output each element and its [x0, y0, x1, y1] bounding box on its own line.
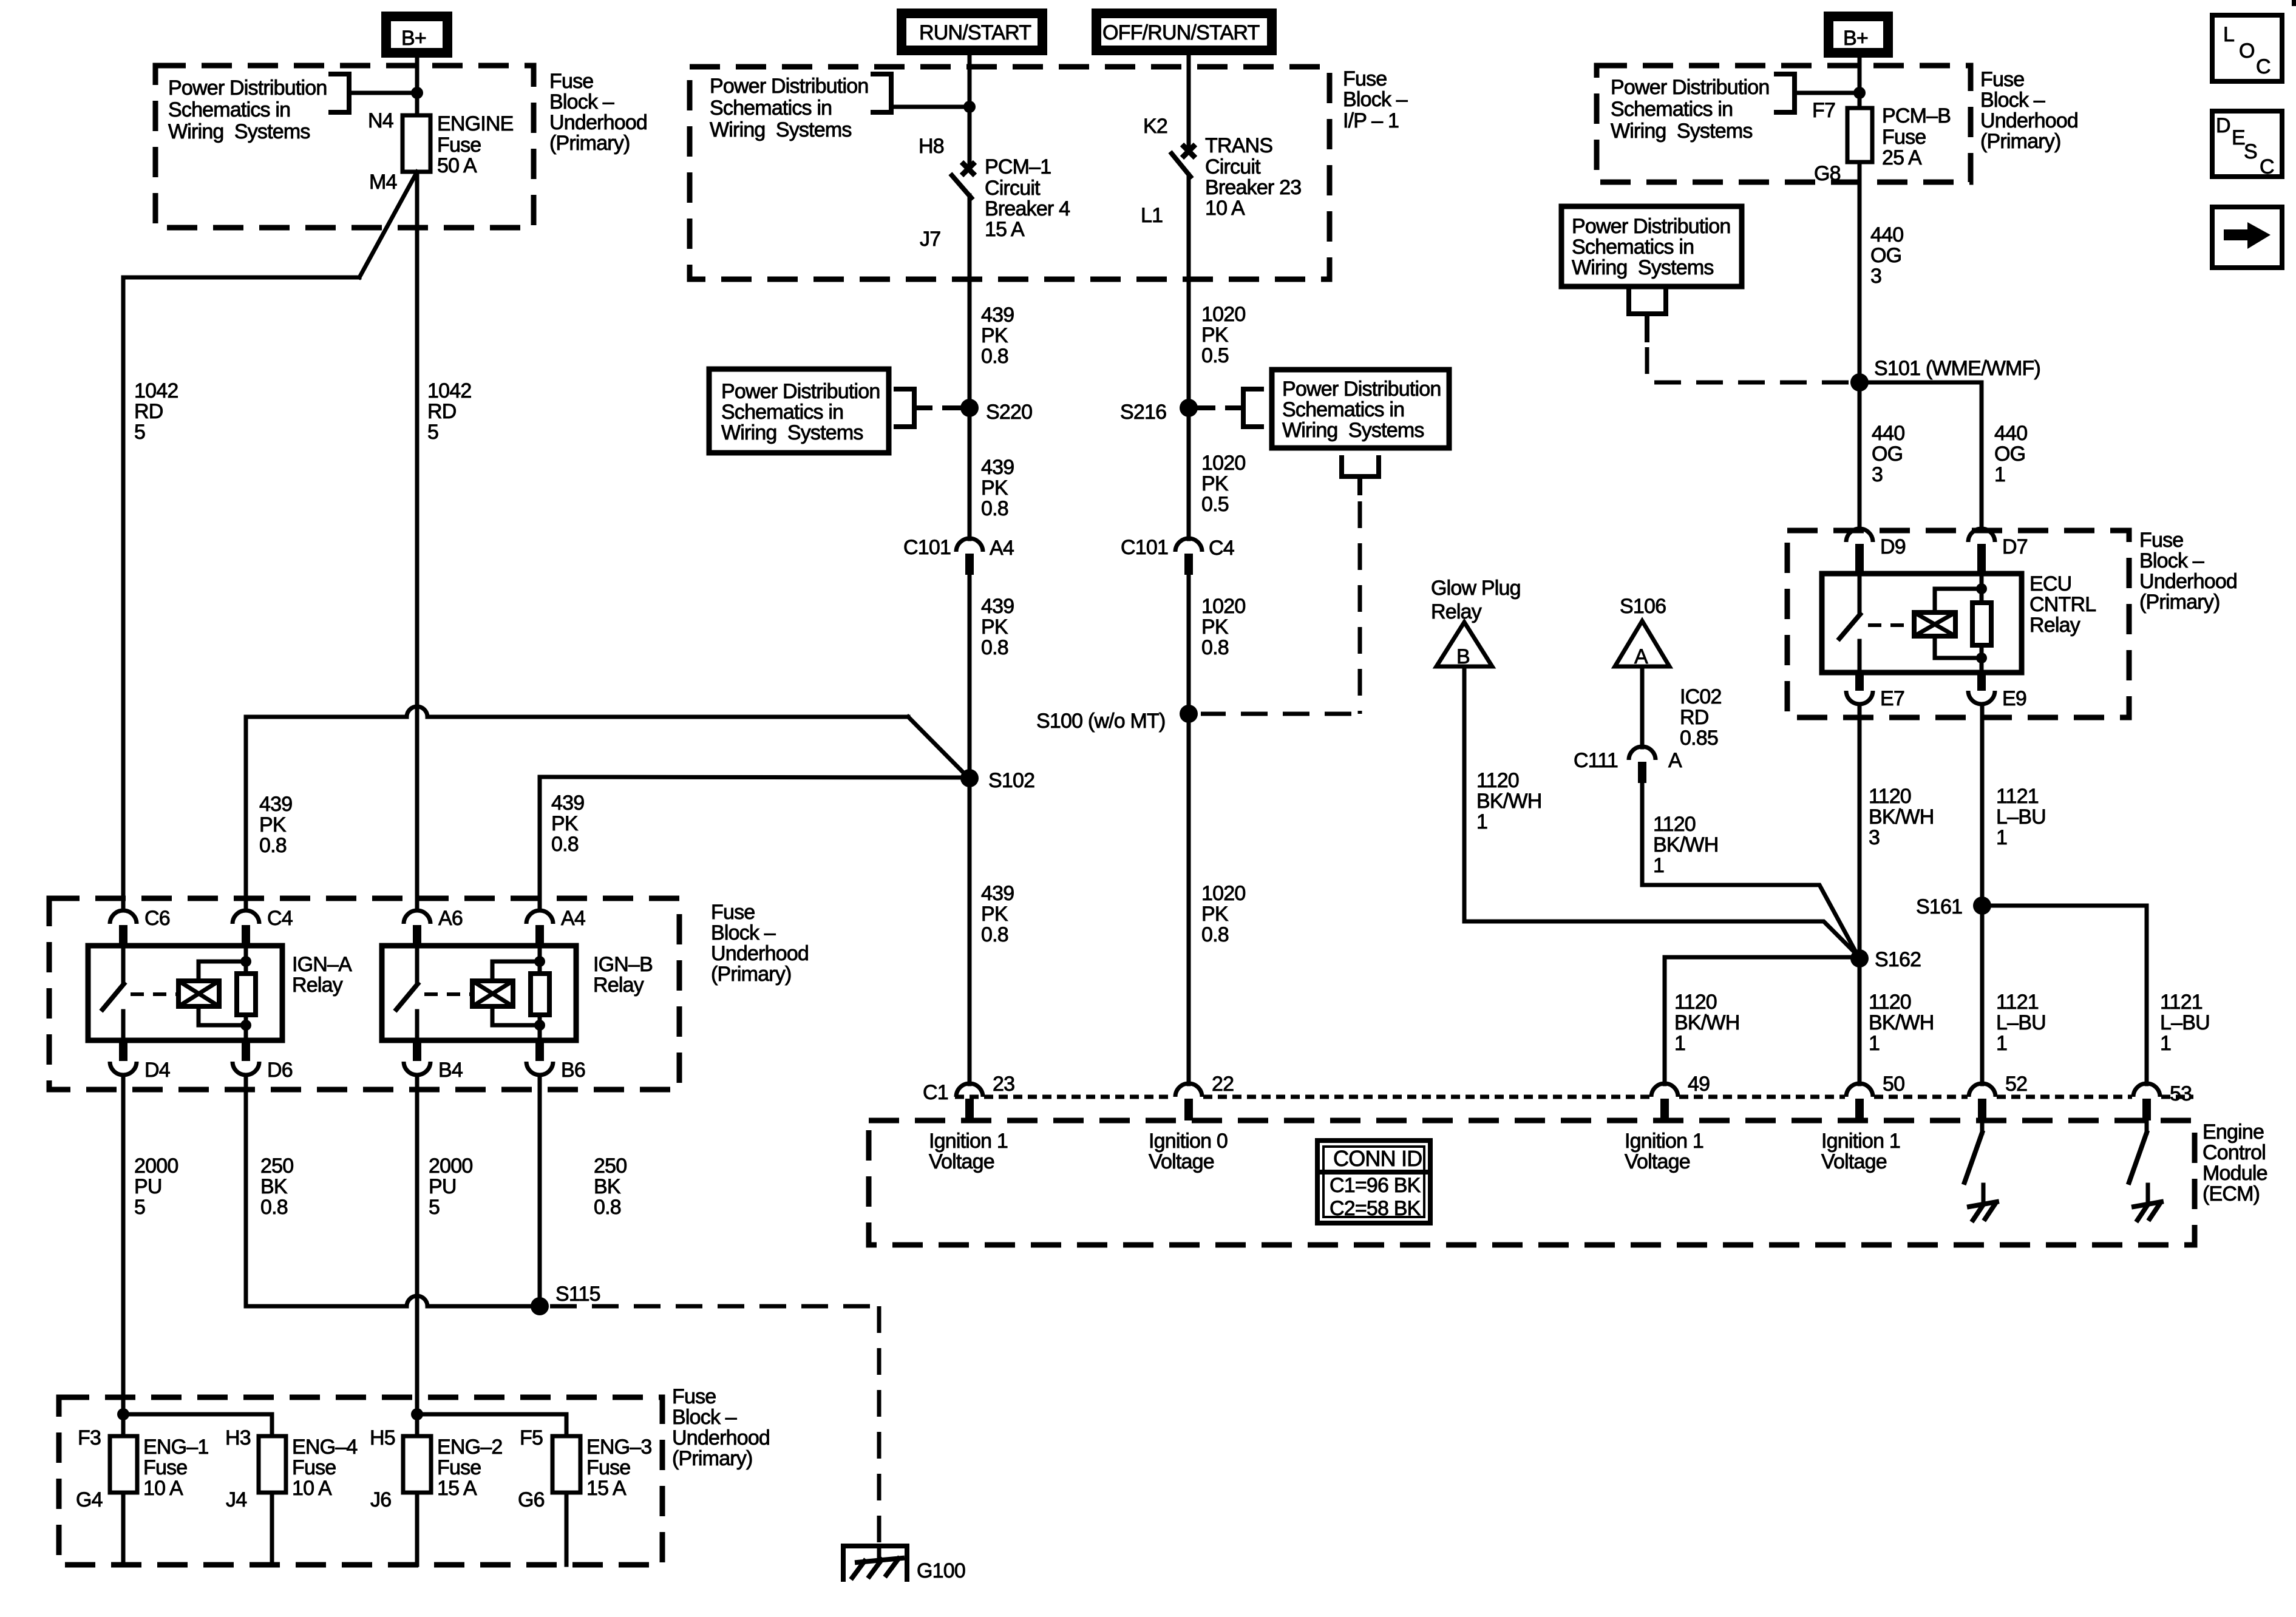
svg-text:(Primary): (Primary) — [549, 132, 630, 155]
svg-text:Fuse: Fuse — [143, 1456, 187, 1479]
svg-text:Wiring Systems: Wiring Systems — [710, 118, 852, 141]
svg-text:440: 440 — [1872, 422, 1904, 445]
svg-text:D7: D7 — [2002, 535, 2028, 558]
svg-text:Underhood: Underhood — [549, 111, 647, 134]
label ENGINE Fuse 50 A — [437, 112, 514, 177]
node junction on RUN/START wire — [963, 101, 976, 113]
svg-text:Wiring Systems: Wiring Systems — [1282, 419, 1424, 442]
svg-text:Glow Plug: Glow Plug — [1431, 577, 1521, 600]
connector E9 — [1968, 673, 2026, 710]
svg-text:5: 5 — [134, 1196, 145, 1219]
svg-text:15 A: 15 A — [985, 218, 1025, 241]
wire far-left column down — [121, 277, 126, 910]
connector D6 — [233, 1040, 293, 1082]
svg-text:PU: PU — [134, 1175, 162, 1198]
label 439 PK 0.8 (A4 drop) — [551, 792, 584, 856]
wire E9 down through S161 to ECM pin 52 — [1980, 704, 1985, 1084]
svg-text:Schematics in: Schematics in — [710, 97, 832, 120]
svg-text:C4: C4 — [1209, 537, 1234, 560]
svg-text:Fuse: Fuse — [549, 70, 593, 93]
svg-text:RD: RD — [427, 400, 457, 423]
svg-text:1: 1 — [1869, 1032, 1880, 1055]
svg-text:Fuse: Fuse — [1882, 126, 1926, 149]
svg-text:1120: 1120 — [1674, 991, 1717, 1014]
svg-text:1: 1 — [1996, 1032, 2007, 1055]
svg-text:C111: C111 — [1574, 749, 1618, 772]
svg-text:S: S — [2244, 140, 2257, 163]
svg-text:F5: F5 — [520, 1426, 543, 1449]
wire PCM-B fuse down to D9 — [1858, 162, 1862, 529]
label 440 OG 3 (below S101) — [1872, 422, 1904, 486]
wire D4 down to ENG-1 fuse — [121, 1075, 126, 1436]
wire C111 to S162 — [1642, 783, 1858, 955]
svg-text:0.8: 0.8 — [981, 345, 1008, 368]
wire glow plug relay to S162 — [1464, 666, 1859, 957]
svg-text:C: C — [2260, 155, 2274, 178]
svg-text:J7: J7 — [920, 228, 940, 251]
svg-text:Relay: Relay — [2029, 614, 2080, 637]
svg-text:1: 1 — [1476, 810, 1487, 833]
svg-text:S100 (w/o MT): S100 (w/o MT) — [1036, 710, 1166, 733]
svg-text:ENG–3: ENG–3 — [586, 1436, 652, 1459]
svg-text:C4: C4 — [267, 907, 293, 930]
svg-text:J4: J4 — [226, 1488, 246, 1511]
svg-text:(Primary): (Primary) — [672, 1447, 753, 1470]
svg-text:23: 23 — [993, 1073, 1014, 1096]
svg-text:H3: H3 — [225, 1426, 251, 1449]
svg-text:C101: C101 — [903, 536, 951, 559]
svg-text:Breaker 4: Breaker 4 — [985, 197, 1070, 220]
svg-text:Power Distribution: Power Distribution — [1282, 378, 1441, 401]
svg-text:Voltage: Voltage — [1149, 1150, 1214, 1173]
circuit breaker TRANS contact X — [1182, 144, 1195, 158]
connector C101 A4 — [903, 536, 1014, 575]
svg-text:ENGINE: ENGINE — [437, 112, 514, 135]
Power Distribution Schematics callout text (top middle) — [710, 75, 869, 141]
bracket below S101 callout box — [1629, 290, 1666, 340]
svg-text:52: 52 — [2005, 1073, 2027, 1096]
svg-text:1: 1 — [1994, 463, 2005, 486]
svg-text:25 A: 25 A — [1882, 146, 1922, 169]
svg-text:Fuse: Fuse — [586, 1456, 630, 1479]
svg-text:Fuse: Fuse — [437, 1456, 481, 1479]
svg-text:S161: S161 — [1916, 895, 1962, 918]
node at ENG-1 feed — [117, 1408, 129, 1420]
label Ignition 1 Voltage (pin 49) — [1625, 1130, 1703, 1173]
svg-text:Relay: Relay — [292, 974, 343, 997]
svg-text:439: 439 — [981, 303, 1014, 327]
fuse block dashed box around ECU CNTRL relay — [1787, 531, 2129, 717]
svg-text:Ignition 1: Ignition 1 — [1625, 1130, 1703, 1153]
svg-text:1: 1 — [1996, 826, 2007, 849]
fuse PCM-B 25A — [1847, 108, 1872, 162]
bus wire ENG-2 to ENG-3 — [417, 1414, 566, 1436]
svg-text:50: 50 — [1883, 1073, 1904, 1096]
connector C1 pin 23 — [923, 1073, 1014, 1120]
svg-text:C2=58 BK: C2=58 BK — [1330, 1197, 1421, 1220]
svg-text:M4: M4 — [369, 171, 397, 194]
dashed wire from S216 callout down to S100 — [1358, 501, 1362, 714]
bus wire ENG-1 to ENG-4 — [123, 1414, 272, 1436]
svg-text:1020: 1020 — [1201, 595, 1245, 618]
svg-text:(Primary): (Primary) — [2139, 591, 2220, 614]
svg-text:B4: B4 — [438, 1059, 463, 1082]
svg-text:1020: 1020 — [1201, 452, 1245, 475]
ground G100 — [843, 1546, 965, 1582]
svg-text:Fuse: Fuse — [711, 901, 755, 924]
connector C6 — [110, 907, 170, 946]
svg-text:PK: PK — [259, 813, 287, 836]
svg-text:Power Distribution: Power Distribution — [1611, 76, 1770, 99]
fuse ENG-4 10A — [225, 1426, 358, 1565]
svg-text:Power Distribution: Power Distribution — [721, 380, 880, 403]
svg-text:Underhood: Underhood — [1980, 109, 2078, 132]
svg-text:1020: 1020 — [1201, 882, 1245, 905]
svg-text:Power Distribution: Power Distribution — [168, 76, 327, 100]
svg-text:PK: PK — [981, 615, 1008, 639]
wire branch from S102 to IGN-A C4 (upper horizontal with hop) — [246, 707, 966, 910]
svg-text:Fuse: Fuse — [672, 1385, 716, 1408]
OFF/RUN/START terminal box — [1096, 13, 1272, 50]
svg-text:A4: A4 — [561, 907, 585, 930]
wire branch S161 to ECM pin 53 — [1982, 906, 2147, 1084]
svg-text:A6: A6 — [438, 907, 463, 930]
svg-text:F7: F7 — [1812, 99, 1835, 122]
svg-text:OFF/RUN/START: OFF/RUN/START — [1102, 21, 1259, 44]
connector B4 — [404, 1040, 463, 1082]
svg-text:C1: C1 — [923, 1081, 948, 1104]
svg-text:BK: BK — [594, 1175, 621, 1198]
svg-text:D4: D4 — [144, 1059, 170, 1082]
svg-text:PCM–B: PCM–B — [1882, 104, 1951, 127]
svg-text:E7: E7 — [1880, 687, 1904, 710]
label 1042 RD 5 (right) — [427, 379, 471, 444]
svg-text:0.8: 0.8 — [551, 833, 579, 856]
svg-text:Power Distribution: Power Distribution — [1572, 215, 1731, 238]
connector pin 53 — [2133, 1082, 2192, 1120]
label Fuse Block - I/P - 1 — [1343, 67, 1408, 132]
bracket S220 callout — [896, 389, 959, 427]
svg-text:B+: B+ — [401, 27, 426, 50]
svg-text:Block –: Block – — [1980, 89, 2045, 112]
wire branch S162 to ECM pin 49 — [1665, 957, 1860, 1084]
svg-text:Wiring Systems: Wiring Systems — [168, 120, 310, 143]
svg-text:1: 1 — [1674, 1032, 1685, 1055]
svg-text:G6: G6 — [518, 1488, 545, 1511]
DESC legend box — [2212, 111, 2282, 178]
svg-text:L–BU: L–BU — [1996, 1011, 2046, 1034]
svg-text:IGN–B: IGN–B — [593, 953, 653, 976]
label 1121 L-BU 1 (pin 53) — [2160, 991, 2210, 1055]
svg-text:Ignition 1: Ignition 1 — [1821, 1130, 1900, 1153]
svg-text:D6: D6 — [267, 1059, 293, 1082]
label 439 PK 0.8 (C4 drop) — [259, 793, 292, 857]
wire diagonal from fuse M4 to left branch — [359, 172, 417, 277]
node junction at fuse feed — [411, 87, 423, 99]
label 1020 PK 0.5 (above S216) — [1201, 303, 1245, 367]
svg-text:S115: S115 — [555, 1283, 600, 1306]
svg-text:PK: PK — [981, 324, 1008, 347]
dashed wire from S101 callout to S101 — [1647, 347, 1849, 382]
svg-text:Relay: Relay — [593, 974, 644, 997]
svg-text:H8: H8 — [919, 135, 944, 158]
svg-text:N4: N4 — [368, 109, 393, 132]
svg-text:5: 5 — [429, 1196, 440, 1219]
svg-text:PK: PK — [1201, 615, 1229, 639]
svg-text:1042: 1042 — [427, 379, 471, 402]
wire horizontal to far-left column — [123, 276, 359, 280]
wire OFF/RUN/START down to breaker — [1187, 55, 1191, 146]
Power Distribution box (S101 callout) — [1561, 206, 1742, 286]
connector D4 — [110, 1040, 170, 1082]
label 1020 PK 0.8 (below C101) — [1201, 595, 1245, 659]
svg-text:3: 3 — [1870, 265, 1881, 288]
svg-text:0.8: 0.8 — [981, 923, 1008, 946]
svg-text:0.8: 0.8 — [1201, 923, 1229, 946]
relay IGN-A — [88, 946, 282, 1040]
circuit breaker TRANS blade — [1172, 154, 1190, 177]
svg-text:S220: S220 — [986, 401, 1032, 424]
label 250 BK 0.8 (B6) — [594, 1154, 627, 1219]
B+ terminal box (left) — [386, 16, 447, 53]
svg-text:1121: 1121 — [1996, 991, 2039, 1014]
connector C111 A — [1574, 747, 1682, 783]
svg-text:Ignition 0: Ignition 0 — [1149, 1130, 1228, 1153]
svg-text:RUN/START: RUN/START — [919, 21, 1031, 44]
svg-text:50 A: 50 A — [437, 154, 477, 177]
ECM dashed box — [869, 1120, 2195, 1245]
wire B+ to ENGINE fuse — [415, 58, 419, 115]
label Fuse Block - Underhood (Primary) right of relay box — [711, 901, 809, 986]
svg-text:15 A: 15 A — [586, 1477, 627, 1500]
svg-text:G8: G8 — [1814, 162, 1841, 185]
svg-text:Underhood: Underhood — [2139, 570, 2237, 593]
connector A6 — [404, 907, 463, 946]
svg-text:B+: B+ — [1843, 27, 1868, 50]
svg-text:S101 (WME/WMF): S101 (WME/WMF) — [1874, 357, 2040, 380]
svg-text:PK: PK — [981, 903, 1008, 926]
label 2000 PU 5 (B4) — [429, 1154, 472, 1219]
svg-text:439: 439 — [981, 595, 1014, 618]
page corner tick — [2292, 0, 2296, 6]
B+ terminal box (right) — [1829, 16, 1888, 53]
svg-text:10 A: 10 A — [292, 1477, 332, 1500]
label TRANS Circuit Breaker 23 10 A — [1205, 134, 1301, 220]
fuse ENG-3 15A — [518, 1426, 652, 1565]
wire B6 down to S115 — [538, 1075, 542, 1306]
splice S162 — [1850, 949, 1869, 968]
svg-text:S102: S102 — [988, 769, 1034, 792]
svg-text:K2: K2 — [1143, 115, 1167, 138]
svg-text:S216: S216 — [1120, 401, 1166, 424]
svg-text:CONN ID: CONN ID — [1333, 1146, 1422, 1171]
label 439 PK 0.8 (above ECM pin 23) — [981, 882, 1014, 946]
svg-text:10 A: 10 A — [143, 1477, 183, 1500]
svg-text:1120: 1120 — [1476, 769, 1519, 792]
svg-text:1: 1 — [2160, 1032, 2171, 1055]
splice S161 — [1973, 897, 1991, 915]
wire branch S101 to D7 — [1860, 382, 1982, 529]
svg-text:1042: 1042 — [134, 379, 178, 402]
svg-text:Schematics in: Schematics in — [1572, 236, 1694, 259]
svg-text:440: 440 — [1870, 223, 1903, 246]
svg-text:53: 53 — [2170, 1082, 2192, 1105]
ECM connector dotted line — [955, 1095, 2193, 1099]
svg-text:0.8: 0.8 — [594, 1196, 621, 1219]
svg-text:E: E — [2232, 126, 2245, 149]
svg-text:0.8: 0.8 — [981, 497, 1008, 520]
svg-text:RD: RD — [1680, 706, 1709, 729]
svg-text:BK/WH: BK/WH — [1653, 833, 1718, 856]
svg-text:Schematics in: Schematics in — [721, 401, 843, 424]
svg-text:3: 3 — [1872, 463, 1883, 486]
bracket S216 callout — [1198, 389, 1262, 427]
svg-text:PK: PK — [1201, 903, 1229, 926]
wire S106 to C111 — [1640, 666, 1645, 747]
fuse ENG-2 15A — [370, 1426, 503, 1565]
label 1120 BK/WH 3 — [1869, 785, 1934, 849]
splice S100 — [1180, 705, 1198, 723]
label Fuse Block - Underhood (Primary) top-left — [549, 70, 647, 155]
svg-text:(Primary): (Primary) — [711, 963, 792, 986]
svg-text:ECU: ECU — [2029, 572, 2071, 595]
svg-text:5: 5 — [427, 421, 438, 444]
label IGN-B Relay — [593, 953, 653, 997]
svg-text:0.8: 0.8 — [981, 636, 1008, 659]
svg-text:PK: PK — [981, 476, 1008, 500]
circuit breaker PCM-1 blade — [952, 175, 971, 198]
svg-text:OG: OG — [1870, 244, 1901, 267]
svg-text:Block –: Block – — [672, 1406, 737, 1429]
svg-text:Block –: Block – — [549, 90, 614, 114]
label PCM-B Fuse 25 A — [1882, 104, 1951, 169]
svg-text:Relay: Relay — [1431, 600, 1482, 623]
svg-text:439: 439 — [981, 882, 1014, 905]
connector C4 — [233, 907, 293, 946]
svg-text:5: 5 — [134, 421, 145, 444]
triangle connector B (glow plug relay) — [1436, 622, 1492, 668]
label 1042 RD 5 (left) — [134, 379, 178, 444]
svg-text:F3: F3 — [78, 1426, 101, 1449]
svg-text:1: 1 — [1653, 854, 1664, 877]
svg-text:PCM–1: PCM–1 — [985, 155, 1051, 178]
bracket for top-right callout — [1776, 74, 1860, 112]
connector pin 52 — [1969, 1073, 2027, 1120]
label 1120 BK/WH 1 (pin 50) — [1869, 991, 1934, 1055]
wire E7 down through S162 to ECM pin 50 — [1858, 704, 1862, 1084]
wire D6 run to S115 with hop — [246, 1296, 540, 1306]
svg-text:49: 49 — [1688, 1073, 1710, 1096]
connector A4 — [526, 907, 585, 946]
svg-text:Module: Module — [2203, 1162, 2267, 1185]
svg-text:Fuse: Fuse — [2139, 529, 2183, 552]
label IGN-A Relay — [292, 953, 352, 997]
svg-text:439: 439 — [981, 456, 1014, 479]
connector E7 — [1846, 673, 1904, 710]
svg-text:D: D — [2216, 114, 2230, 137]
svg-text:Schematics in: Schematics in — [1611, 98, 1733, 121]
relay ECU CNTRL — [1822, 574, 2022, 673]
splice S102 — [960, 769, 979, 787]
svg-text:C: C — [2256, 55, 2271, 78]
wire B+ right to PCM-B fuse — [1858, 58, 1862, 108]
svg-text:OG: OG — [1994, 442, 2025, 466]
splice S216 — [1180, 399, 1198, 417]
svg-text:2000: 2000 — [134, 1154, 178, 1178]
svg-text:G4: G4 — [76, 1488, 103, 1511]
svg-text:Schematics in: Schematics in — [1282, 398, 1404, 421]
wire fuse output down left column — [415, 172, 419, 910]
svg-text:Fuse: Fuse — [292, 1456, 336, 1479]
svg-text:440: 440 — [1994, 422, 2027, 445]
svg-text:J6: J6 — [370, 1488, 391, 1511]
svg-text:PU: PU — [429, 1175, 457, 1198]
svg-text:C6: C6 — [144, 907, 170, 930]
svg-text:ENG–2: ENG–2 — [437, 1436, 503, 1459]
bracket below S216 callout box — [1342, 458, 1379, 493]
svg-text:Ignition 1: Ignition 1 — [929, 1130, 1008, 1153]
svg-text:BK: BK — [260, 1175, 288, 1198]
Power Distribution Schematics callout text (top-left) — [168, 76, 327, 143]
svg-text:22: 22 — [1212, 1073, 1234, 1096]
label 440 OG 1 — [1994, 422, 2027, 486]
svg-text:Power Distribution: Power Distribution — [710, 75, 869, 98]
svg-text:Voltage: Voltage — [1625, 1150, 1690, 1173]
LOC legend box — [2212, 15, 2282, 81]
label 250 BK 0.8 (D6) — [260, 1154, 293, 1219]
svg-text:S162: S162 — [1875, 948, 1921, 971]
label 1120 BK/WH 1 (pin 49) — [1674, 991, 1739, 1055]
svg-text:1120: 1120 — [1653, 813, 1696, 836]
connector C101 C4 — [1121, 536, 1234, 575]
svg-text:10 A: 10 A — [1205, 197, 1245, 220]
svg-text:1120: 1120 — [1869, 785, 1911, 808]
svg-text:H5: H5 — [370, 1426, 395, 1449]
connector B6 — [526, 1040, 585, 1082]
label 439 PK 0.8 (below S220) — [981, 456, 1014, 520]
svg-text:0.8: 0.8 — [1201, 636, 1229, 659]
svg-text:A4: A4 — [990, 537, 1014, 560]
svg-text:Circuit: Circuit — [985, 177, 1041, 200]
svg-text:250: 250 — [594, 1154, 627, 1178]
connector pin 49 — [1651, 1073, 1710, 1120]
label Ignition 1 Voltage (pin 50) — [1821, 1130, 1900, 1173]
fuse block dashed box around IGN relays — [49, 898, 679, 1090]
svg-text:BK/WH: BK/WH — [1476, 790, 1541, 813]
label 1020 PK 0.5 (below S216) — [1201, 452, 1245, 516]
svg-text:(ECM): (ECM) — [2203, 1182, 2260, 1205]
relay IGN-B — [382, 946, 576, 1040]
node junction at PCM-B feed — [1853, 87, 1866, 99]
svg-text:L–BU: L–BU — [1996, 805, 2046, 829]
connector pin 50 — [1846, 1073, 1904, 1120]
svg-text:439: 439 — [259, 793, 292, 816]
connector D9 — [1846, 529, 1906, 574]
svg-text:(Primary): (Primary) — [1980, 130, 2061, 153]
svg-text:L1: L1 — [1141, 204, 1163, 227]
svg-text:OG: OG — [1872, 442, 1903, 466]
svg-text:Block –: Block – — [2139, 549, 2204, 572]
label PCM-1 Circuit Breaker 4 15 A — [985, 155, 1070, 241]
svg-text:IGN–A: IGN–A — [292, 953, 352, 976]
svg-text:1020: 1020 — [1201, 303, 1245, 326]
svg-text:15 A: 15 A — [437, 1477, 477, 1500]
svg-text:ENG–1: ENG–1 — [143, 1436, 209, 1459]
triangle connector A (S106) — [1615, 621, 1669, 668]
svg-text:Fuse: Fuse — [437, 134, 481, 157]
forward arrow legend box — [2212, 207, 2282, 268]
label 1121 L-BU 1 (pin 52) — [1996, 991, 2046, 1055]
